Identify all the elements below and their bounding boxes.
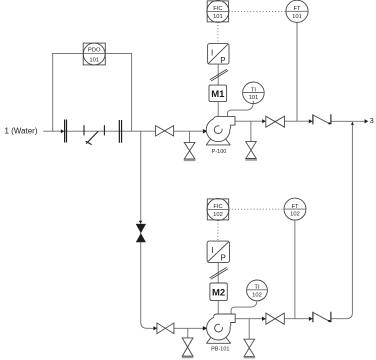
svg-text:FIC: FIC — [213, 204, 222, 210]
wire drain stem 2 — [250, 121, 252, 141]
svg-text:102: 102 — [290, 212, 300, 218]
svg-text:TI: TI — [251, 87, 257, 93]
drain valve D2 — [246, 142, 257, 159]
wire main inlet pipe — [43, 130, 203, 132]
instrument TI 101 — [243, 82, 265, 104]
svg-text:1 (Water): 1 (Water) — [4, 126, 37, 135]
wire drain stem 4 — [248, 319, 250, 340]
svg-text:P-100: P-100 — [212, 149, 227, 155]
wire PDO instrument loop — [53, 53, 132, 131]
wire FT 101 stem — [296, 22, 298, 121]
wire TI 102 capillary — [231, 301, 257, 314]
wire IP1 to M1 — [217, 64, 219, 85]
drain valve D3 — [182, 338, 193, 356]
arrow down into closed valve — [139, 221, 143, 224]
signal FIC101 to FT101 — [229, 10, 286, 12]
arrow into valve V3 — [153, 326, 157, 330]
wire motor M2 stem — [217, 300, 219, 314]
instrument FIC 101 — [207, 0, 229, 22]
instrument TI 102 — [247, 280, 268, 301]
valve V4 bottom discharge gate valve — [266, 313, 284, 324]
wire drain stem 1 — [189, 131, 191, 142]
svg-text:101: 101 — [292, 14, 302, 20]
svg-text:FT: FT — [293, 6, 301, 12]
svg-text:101: 101 — [89, 57, 99, 63]
flange pair right — [119, 120, 121, 143]
svg-text:PB-101: PB-101 — [211, 347, 229, 353]
arrow into valve V4 — [262, 317, 266, 321]
motor M2 — [210, 283, 227, 300]
svg-text:I: I — [211, 246, 213, 255]
wire drain stem 3 — [187, 328, 189, 338]
svg-text:3: 3 — [370, 116, 374, 125]
pump PB-101 — [206, 314, 236, 353]
arrow into butterfly valve B1 — [309, 119, 313, 123]
instrument PDO 101 — [83, 43, 105, 65]
svg-text:P: P — [221, 254, 226, 263]
instrument FT 101 — [286, 0, 308, 22]
signal FIC101 to IP1 — [217, 22, 219, 44]
pump P-100 — [206, 116, 236, 155]
drain base D3 — [182, 356, 194, 358]
wire discharge pipe top — [235, 120, 365, 122]
instrument FIC 102 — [207, 198, 229, 220]
wire TI 101 capillary — [228, 101, 254, 117]
valve NC closed bypass valve — [136, 224, 146, 242]
orifice tick right — [103, 125, 105, 135]
wire FT 102 stem — [294, 220, 296, 319]
transducer I/P 2 — [207, 241, 229, 262]
instrument FT 102 — [284, 198, 306, 220]
svg-text:FT: FT — [291, 204, 299, 210]
orifice diagonal with tail tick — [86, 131, 99, 144]
svg-text:102: 102 — [213, 212, 223, 218]
drain valve D1 — [184, 142, 195, 159]
svg-text:101: 101 — [213, 14, 223, 20]
svg-text:101: 101 — [249, 95, 259, 101]
wire riser from bypass return — [331, 122, 353, 319]
signal FIC102 to FT102 — [229, 208, 285, 210]
drain base D1 — [184, 159, 196, 161]
flange pair left — [65, 120, 67, 143]
drain valve D4 — [244, 339, 255, 356]
motor M1 — [209, 85, 227, 102]
svg-text:M2: M2 — [212, 287, 225, 298]
arrow merge up at node — [351, 122, 354, 125]
arrow into valve V2 — [262, 119, 266, 123]
svg-text:102: 102 — [252, 292, 262, 298]
valve V3 bottom inlet gate valve — [157, 323, 174, 334]
butterfly valve B1 — [313, 114, 331, 124]
electric signal slashes 1 — [210, 69, 228, 81]
orifice tick left — [83, 125, 85, 135]
svg-text:PDO: PDO — [88, 47, 101, 53]
electric signal slashes 2 — [210, 267, 229, 279]
arrow into pump PB-101 — [203, 326, 208, 330]
drain base D4 — [244, 357, 256, 359]
transducer I/P 1 — [208, 44, 229, 65]
svg-text:FIC: FIC — [213, 6, 222, 12]
butterfly valve B2 — [313, 312, 331, 323]
valve V1 inlet gate valve — [156, 126, 174, 136]
signal FIC102 to IP2 — [217, 220, 219, 241]
valve V2 discharge gate valve — [266, 116, 285, 127]
wire discharge pipe bottom — [235, 318, 313, 320]
svg-text:I: I — [211, 49, 213, 58]
wire IP2 to M2 — [217, 262, 219, 283]
wire motor M1 stem — [217, 102, 219, 117]
arrow flow into flange — [61, 129, 64, 133]
drain base D2 — [245, 159, 257, 161]
arrow into butterfly valve B2 — [309, 317, 313, 321]
arrow outlet to node 3 — [365, 119, 369, 123]
svg-text:TI: TI — [254, 285, 260, 291]
wire branch down to bypass loop — [141, 131, 203, 328]
arrow into pump P-100 — [203, 129, 208, 134]
svg-text:P: P — [220, 56, 225, 65]
svg-text:M1: M1 — [211, 89, 225, 100]
